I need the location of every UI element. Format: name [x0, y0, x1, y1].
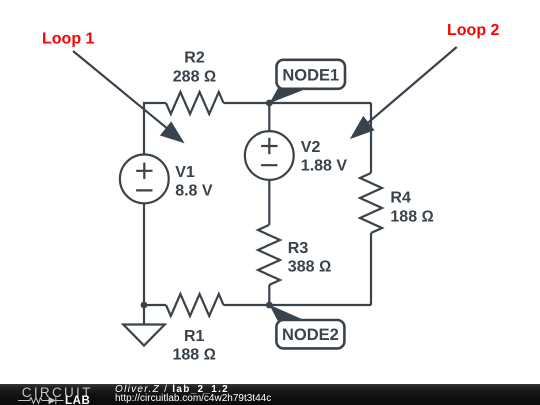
svg-text:Loop 2: Loop 2	[447, 22, 500, 39]
wire bottom-left segment	[144, 304, 166, 306]
svg-text:R4: R4	[390, 189, 411, 206]
svg-text:R1: R1	[184, 328, 205, 345]
resistor R4	[360, 173, 382, 233]
svg-text:R2: R2	[184, 50, 205, 67]
wire top-left segment	[144, 102, 166, 104]
svg-text:388 Ω: 388 Ω	[288, 259, 331, 276]
label V2 value	[301, 139, 348, 175]
label R2 value	[173, 50, 216, 86]
resistor R3	[258, 225, 280, 285]
resistor R2	[166, 92, 224, 114]
voltage source V1	[120, 155, 169, 204]
resistor R1	[166, 294, 224, 316]
node junction dot NODE1	[266, 100, 273, 107]
svg-text:1.88 V: 1.88 V	[301, 158, 348, 175]
label R1 value	[172, 328, 215, 364]
footer bar	[0, 384, 540, 405]
wire bottom-right segment	[224, 304, 372, 306]
annotation Loop 2	[350, 22, 500, 139]
wire top-right segment	[224, 102, 372, 104]
svg-text:288 Ω: 288 Ω	[173, 68, 216, 85]
node junction dot NODE2	[266, 302, 273, 309]
svg-text:V1: V1	[175, 164, 195, 181]
node NODE2 callout	[269, 305, 344, 349]
credit text	[114, 383, 116, 385]
svg-text:188 Ω: 188 Ω	[390, 208, 433, 225]
wire right vertical upper	[370, 103, 372, 173]
wire right vertical lower	[370, 233, 372, 305]
wire left vertical lower	[143, 203, 145, 305]
ground	[123, 305, 165, 346]
svg-text:V2: V2	[301, 139, 321, 156]
node NODE1 callout	[270, 60, 346, 104]
svg-text:Loop 1: Loop 1	[42, 31, 95, 48]
node junction dot ground	[141, 302, 148, 309]
wire middle lower	[268, 285, 270, 305]
wire middle between V2 and R3	[268, 180, 270, 225]
svg-text:8.8 V: 8.8 V	[175, 183, 213, 200]
wire left vertical upper	[143, 102, 145, 155]
label V1 value	[175, 164, 213, 200]
svg-text:NODE1: NODE1	[282, 66, 339, 84]
CircuitLab logo	[0, 384, 100, 405]
label R4 value	[390, 189, 433, 225]
svg-text:188 Ω: 188 Ω	[172, 346, 215, 363]
svg-text:R3: R3	[288, 240, 309, 257]
svg-text:LAB: LAB	[65, 395, 90, 405]
svg-text:NODE2: NODE2	[282, 326, 339, 344]
annotation Loop 1	[42, 31, 185, 144]
voltage source V2	[245, 131, 294, 180]
wire middle upper	[268, 103, 270, 131]
label R3 value	[288, 240, 331, 276]
